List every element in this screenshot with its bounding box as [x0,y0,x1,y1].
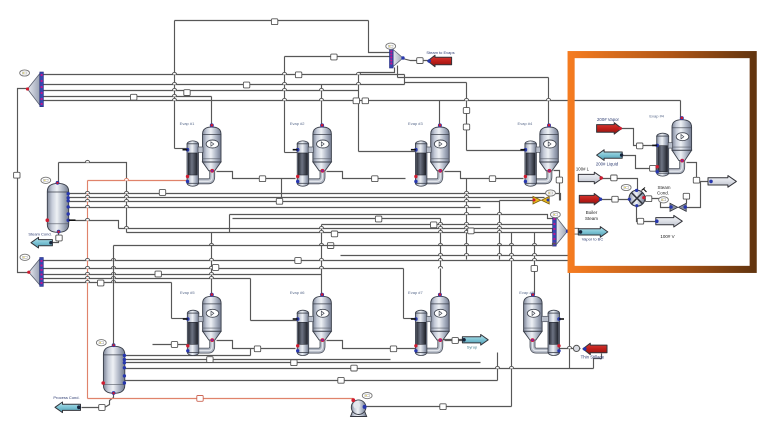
wire Evap6 feed top stub [251,320,298,322]
stream box collector [431,222,437,228]
wire 200 liquid from Evap4 [623,156,657,169]
stream box lane362 [291,360,297,366]
stream box lane90 [184,90,190,96]
wire lane y201 [69,201,500,203]
stream box lane201 [276,198,282,204]
wire lane y368 [125,368,594,370]
svg-text:Evap #2: Evap #2 [290,121,305,126]
wire Evap4t feed stub [467,150,525,152]
svg-text:Steam: Steam [657,185,670,190]
wire vertical x175 to Evap1 feed [174,21,176,149]
sight glass of Evap #4 [544,140,557,148]
wire Steam Cond outlet [53,232,59,243]
flash drum of evaporator Evap #2 [313,127,332,171]
svg-text:100# V: 100# V [660,234,674,239]
heat exchanger shell of Evap #4 [525,141,537,186]
connecting nozzle of Evap #1 [198,147,203,152]
wire lane y215 to BC mixer in1 [230,215,557,219]
stream box lane219 [375,216,381,222]
flash drum of evaporator Evap #4 [540,127,559,171]
splitter S2 lane 3 [44,274,322,276]
splitter S2 lane 4 [44,278,251,280]
heat exchanger E1 (circle with cross) [628,188,647,208]
stream box BC mixer out [573,228,579,234]
svg-text:Process Cond.: Process Cond. [53,395,79,400]
svg-text:Steam to Evaps: Steam to Evaps [426,50,454,55]
stub [68,193,70,195]
wire lane y255 [341,255,569,257]
elbow pipe of Evap #4 [529,170,550,181]
stream box lane274 [155,271,161,277]
wire lane y380 [125,380,498,382]
stream arrow Syrup [462,335,488,346]
stream box x466 a [463,108,469,114]
ports of Evap #1 [183,123,215,183]
stream box Evap4t outlet [556,177,562,183]
stream box transfer 5-6 [254,346,260,352]
wire BC mixer outlet [568,231,579,233]
stream box transfer 1-2 [259,176,265,182]
splitter S1 lane 4 [44,96,212,98]
sight glass of Evap #6 [317,309,330,317]
wire Evap1 drum riser [211,97,213,126]
wire tank top feed [59,163,127,233]
svg-text:Steam Cond.: Steam Cond. [28,231,51,236]
heat exchanger shell of Evap #7 [415,310,427,355]
wire Evap6 feed riser [250,279,252,321]
pump P1 [351,398,367,416]
stream box exchanger out [645,196,651,202]
wire Evap2 drum riser [321,85,323,126]
connecting nozzle of Evap #6 [308,316,313,321]
svg-text:Thin Stillage: Thin Stillage [581,355,605,360]
connecting nozzle of Evap #3 [426,147,431,152]
stream box lane100 b [362,98,368,104]
connecting nozzle of Evap #4 [536,147,540,152]
black tick into tank lane [69,219,76,221]
splitter S2 lane 1 long [44,260,569,262]
svg-text:Syrup: Syrup [467,345,478,350]
wire valve outlet riser [687,182,701,208]
svg-text:Vapor to BC: Vapor to BC [582,237,604,242]
ring node thin stillage [573,345,579,351]
status oval valve V1 [546,190,556,196]
sight glass of Evap #2 [317,140,330,148]
stream box lane232 b [331,231,337,237]
wire top loop horizontal [175,20,369,22]
stream arrow Process Cond [55,402,81,413]
wire Evap7 to syrup arrow [445,340,463,342]
wire lane y207 [69,207,481,209]
status oval M2 [551,212,561,218]
heat exchanger shell of Evap #4 [657,133,669,176]
ports of Evap #5 [183,293,214,353]
wire Evap4t outlet to valve [554,171,560,201]
splitter S1 lane 3 [44,90,359,92]
status oval exchanger [621,184,631,190]
wire into steam mixer [285,56,394,58]
ports of Evap #4 [652,116,684,173]
stream box Evap5 riser [212,265,218,271]
wire Evap3 drum riser [439,101,441,126]
status oval Process Cond tank [96,340,106,346]
salmon crossing hop [124,178,128,180]
valve V1 (yellow) [533,196,550,204]
stream box Steam Cond outlet [56,235,62,241]
transfer line Evap2 to Evap3 [327,172,406,179]
wire Process Cond top riser [113,246,115,345]
stream box 100L [611,175,617,181]
wire Evap4t drum riser [548,78,550,126]
mixer M1 steam mixer [390,48,405,68]
wire drop x466 to lane y260 [466,179,468,260]
wire Evap5 feed top stub [172,318,188,320]
ports of Evap #8 [531,293,564,353]
stream box Process Cond outlet [99,405,105,411]
wire Process Cond outlet jog [105,394,114,408]
svg-text:Evap #3: Evap #3 [408,121,423,126]
wire lane y219 to Evap7 riser [233,218,441,220]
wire pump riser [511,233,513,407]
svg-text:200# Liquid: 200# Liquid [596,162,619,167]
wire mixer bottom stub [397,66,399,78]
wire below orange box [569,273,571,369]
connecting nozzle of Evap #2 [308,147,313,152]
wire lane y228 to BC mixer in3 [119,229,557,232]
transfer line Evap3 to Evap4t [445,172,524,179]
stream box pump line [440,404,446,410]
elbow pipe of Evap #8 [533,340,556,351]
stream box condensate [197,396,203,402]
wire Evap4 drum riser [680,101,682,118]
stream box mixer outlet [417,58,423,64]
wire Evap3 feed stub [359,151,416,153]
stream box Evap5 feed [171,342,177,348]
splitter S1 lane 5 long to Evap4 [44,100,681,102]
flash drum of evaporator Evap #8 [524,296,543,340]
stream arrow product outlet [708,176,736,188]
wire drop x499 to lane y260 [499,201,501,260]
wire thin stillage drop [594,354,602,369]
heat exchanger shell of Evap #5 [187,310,199,355]
svg-text:Evap #1: Evap #1 [180,121,195,126]
valve V2 (steam cond) [669,203,687,211]
wire 200 vapor to Evap4 [622,129,656,146]
svg-text:Steam: Steam [585,216,598,221]
stream box on top loop [271,19,277,25]
wire transfer drop to lane y201 [281,179,283,202]
stream arrow Vapor to BC [578,227,608,238]
stream box lane97 [131,94,137,100]
splitter S2 lane 2 [44,268,404,270]
stream box outlet [693,177,699,183]
svg-text:Evap #8: Evap #8 [519,290,534,295]
elbow pipe of Evap #4 [661,160,683,171]
stream box splitter feed [14,172,20,178]
flash drum of evaporator Evap #4 [672,120,692,161]
wire steam mixer outlet [403,59,428,61]
connecting nozzle of Evap #4 [668,143,672,148]
svg-text:Cond.: Cond. [657,191,669,196]
transfer line Evap6 to Evap7 [327,341,416,349]
connecting nozzle of Evap #5 [198,316,203,321]
wire tank outlet y220 to lane y228 [76,221,119,229]
status oval M1 [386,43,396,49]
Steam Cond tank ports [46,181,70,234]
wire valve branch stub [686,194,688,204]
stream box lane380 [338,377,344,383]
stream arrow 200 Liquid [597,150,623,161]
splitter S2 lane 5 [44,282,172,284]
flash drum of evaporator Evap #3 [431,127,450,171]
condensate wire to Evap1 [88,180,188,182]
transfer line Evap1 to Evap2 [217,172,296,179]
wire syrup stub [441,339,465,341]
wire into valve [500,200,533,202]
sight glass of Evap #3 [434,140,447,148]
wire lane y359 [125,359,391,361]
wire exchanger to valve [646,199,670,208]
elbow pipe of Evap #6 [301,340,322,351]
stream box lane283 [98,280,104,286]
status oval pump [362,393,372,399]
splitter S1 vapor splitter [26,72,43,107]
elbow pipe of Evap #3 [419,170,440,181]
wire lane y193 to valve outlet [69,194,561,201]
vessel Process Cond tank [103,346,124,393]
stream box 100V [637,218,643,224]
wire exchanger to 100V arrow [637,206,656,222]
wire lane y362 [125,362,481,364]
wire lane y232 to BC mixer in4 [127,233,557,238]
stream box lane84 [243,82,249,88]
stream arrow Steam to Evaps [428,55,452,66]
condensate wire vertical [87,181,89,399]
heat exchanger shell of Evap #3 [415,141,427,186]
sight glass of Evap #8 [527,309,540,317]
heat exchanger shell of Evap #2 [297,141,309,186]
elbow pipe of Evap #7 [419,340,440,351]
stream arrow Steam Cond [31,237,52,248]
stream box x466 b [463,124,469,130]
wire Evap7 feed top stub [404,318,416,320]
stream box lane75 [295,72,301,78]
wire collector y224 to BC mixer in2 [322,224,557,226]
wire jog x404 [404,75,406,85]
sight glass of Evap #5 [206,309,219,317]
status oval S2 [20,254,30,260]
stream box Evap8 riser [531,266,537,272]
wire crossing hops [85,72,571,368]
stream box boiler steam [612,196,618,202]
svg-text:Evap #7: Evap #7 [408,290,423,295]
transfer line Evap5 to Evap6 [217,341,296,349]
wire boiler steam to exchanger [602,199,629,201]
wire mixer bottom to x358 [359,68,395,73]
stream box lane100 a [353,98,359,104]
splitter S2 vapor splitter [27,258,43,287]
wire pump discharge [367,406,512,408]
wire Evap6 drum riser [321,225,323,295]
elbow pipe of Evap #5 [191,340,212,351]
stream box lane261 [295,258,301,264]
stream box transfer 2-3 [372,176,378,182]
wire Evap2 feed stub [285,152,298,154]
stream arrow 200 Vapor [597,123,622,134]
svg-text:Evap #4: Evap #4 [649,114,664,119]
wire lane y245 to BC mixer in5 [114,244,557,246]
stream box lane245 [327,243,333,249]
wire jog x497 [497,353,499,381]
stream box lane55 [331,54,337,60]
wire lane y355 [125,355,251,357]
stream box 200 vapor [637,143,643,149]
svg-text:Evap #6: Evap #6 [290,290,305,295]
ports of Evap #7 [411,293,442,353]
elbow pipe of Evap #2 [301,170,322,181]
flash drum of evaporator Evap #5 [203,296,222,340]
svg-text:100# L: 100# L [576,167,590,172]
orange highlight box [571,55,753,270]
Process Cond tank ports [101,343,126,395]
stream box lane193 [159,190,165,196]
wire lane y198 [69,197,545,199]
flash drum of evaporator Evap #7 [431,296,450,340]
wire Evap1 feed stub [175,148,188,150]
wire Evap8 drum riser [534,233,536,295]
ports of Evap #4 [520,123,551,183]
wire vertical x466 [466,83,468,151]
wire to Process Cond arrow [82,407,99,409]
ports of Evap #3 [411,123,442,183]
wire 100L to exchanger [603,179,638,191]
vessel Steam Cond tank [47,183,68,232]
wire Evap5 feed riser [171,283,173,319]
sight glass of Evap #4 [676,133,689,141]
elbow pipe of Evap #1 [191,170,212,181]
heat exchanger shell of Evap #6 [297,310,309,355]
stream box syrup [452,338,458,344]
svg-text:Boiler: Boiler [586,210,598,215]
flash drum of evaporator Evap #1 [203,127,222,171]
wire splitter feed vertical [18,89,29,273]
wire vertical x285 to Evap2 feed [284,57,286,153]
sight glass of Evap #7 [434,309,447,317]
stream arrow 100 V [656,215,683,227]
wire Evap7 feed riser [403,269,405,319]
stream arrow Thin Stillage [583,343,607,354]
stream arrow Boiler Steam [579,194,601,205]
ports of Evap #2 [293,123,325,183]
wire Evap4 liquid to outlet arrow [687,163,712,182]
wire vertical x358 to Evap3 feed [358,73,360,152]
sight glass of Evap #1 [206,140,219,148]
svg-text:Evap #5: Evap #5 [180,290,195,295]
stream box transfer 3-4 [489,176,495,182]
wire y82 to Evap4t feed [405,82,467,84]
wire jog x229 [229,215,231,233]
wire Steam Cond tank top stub [58,163,60,183]
stream box lane368 [351,365,357,371]
wire top loop into mixer [369,21,394,53]
heat exchanger shell of Evap #8 [548,310,560,355]
status oval S1 [20,70,30,76]
svg-text:200# Vapor: 200# Vapor [597,117,619,122]
status oval valve V2 [659,197,669,203]
splitter S1 lane 1 [44,74,405,76]
splitter S1 lane 2 [44,84,405,86]
stream box 200 liquid [650,165,656,171]
wire thin stillage to Evap8 [560,348,581,350]
wire mixer to Evap4t riser [398,77,549,79]
wire jog x250 [250,349,252,356]
connecting nozzle of Evap #8 [542,316,549,321]
heat exchanger shell of Evap #1 [187,141,199,186]
status oval Steam Cond tank [41,177,51,183]
stream arrow 100 L [578,172,603,184]
wire Evap7 drum riser [440,219,442,295]
condensate wire to pump [88,398,354,400]
stream box transfer 6-7 [390,346,396,352]
flash drum of evaporator Evap #6 [313,296,332,340]
stream box valve branch [683,193,689,199]
stream box lane359 [207,357,213,363]
stream box x466 drop [468,228,474,234]
svg-text:Evap #4: Evap #4 [518,121,533,126]
wire Evap5 bottom stub [153,344,188,346]
connecting nozzle of Evap #7 [426,316,431,321]
ports of Evap #6 [293,293,325,353]
mixer M2 vapor-to-BC mixer [553,216,570,247]
wire Evap5 drum riser [211,233,213,295]
